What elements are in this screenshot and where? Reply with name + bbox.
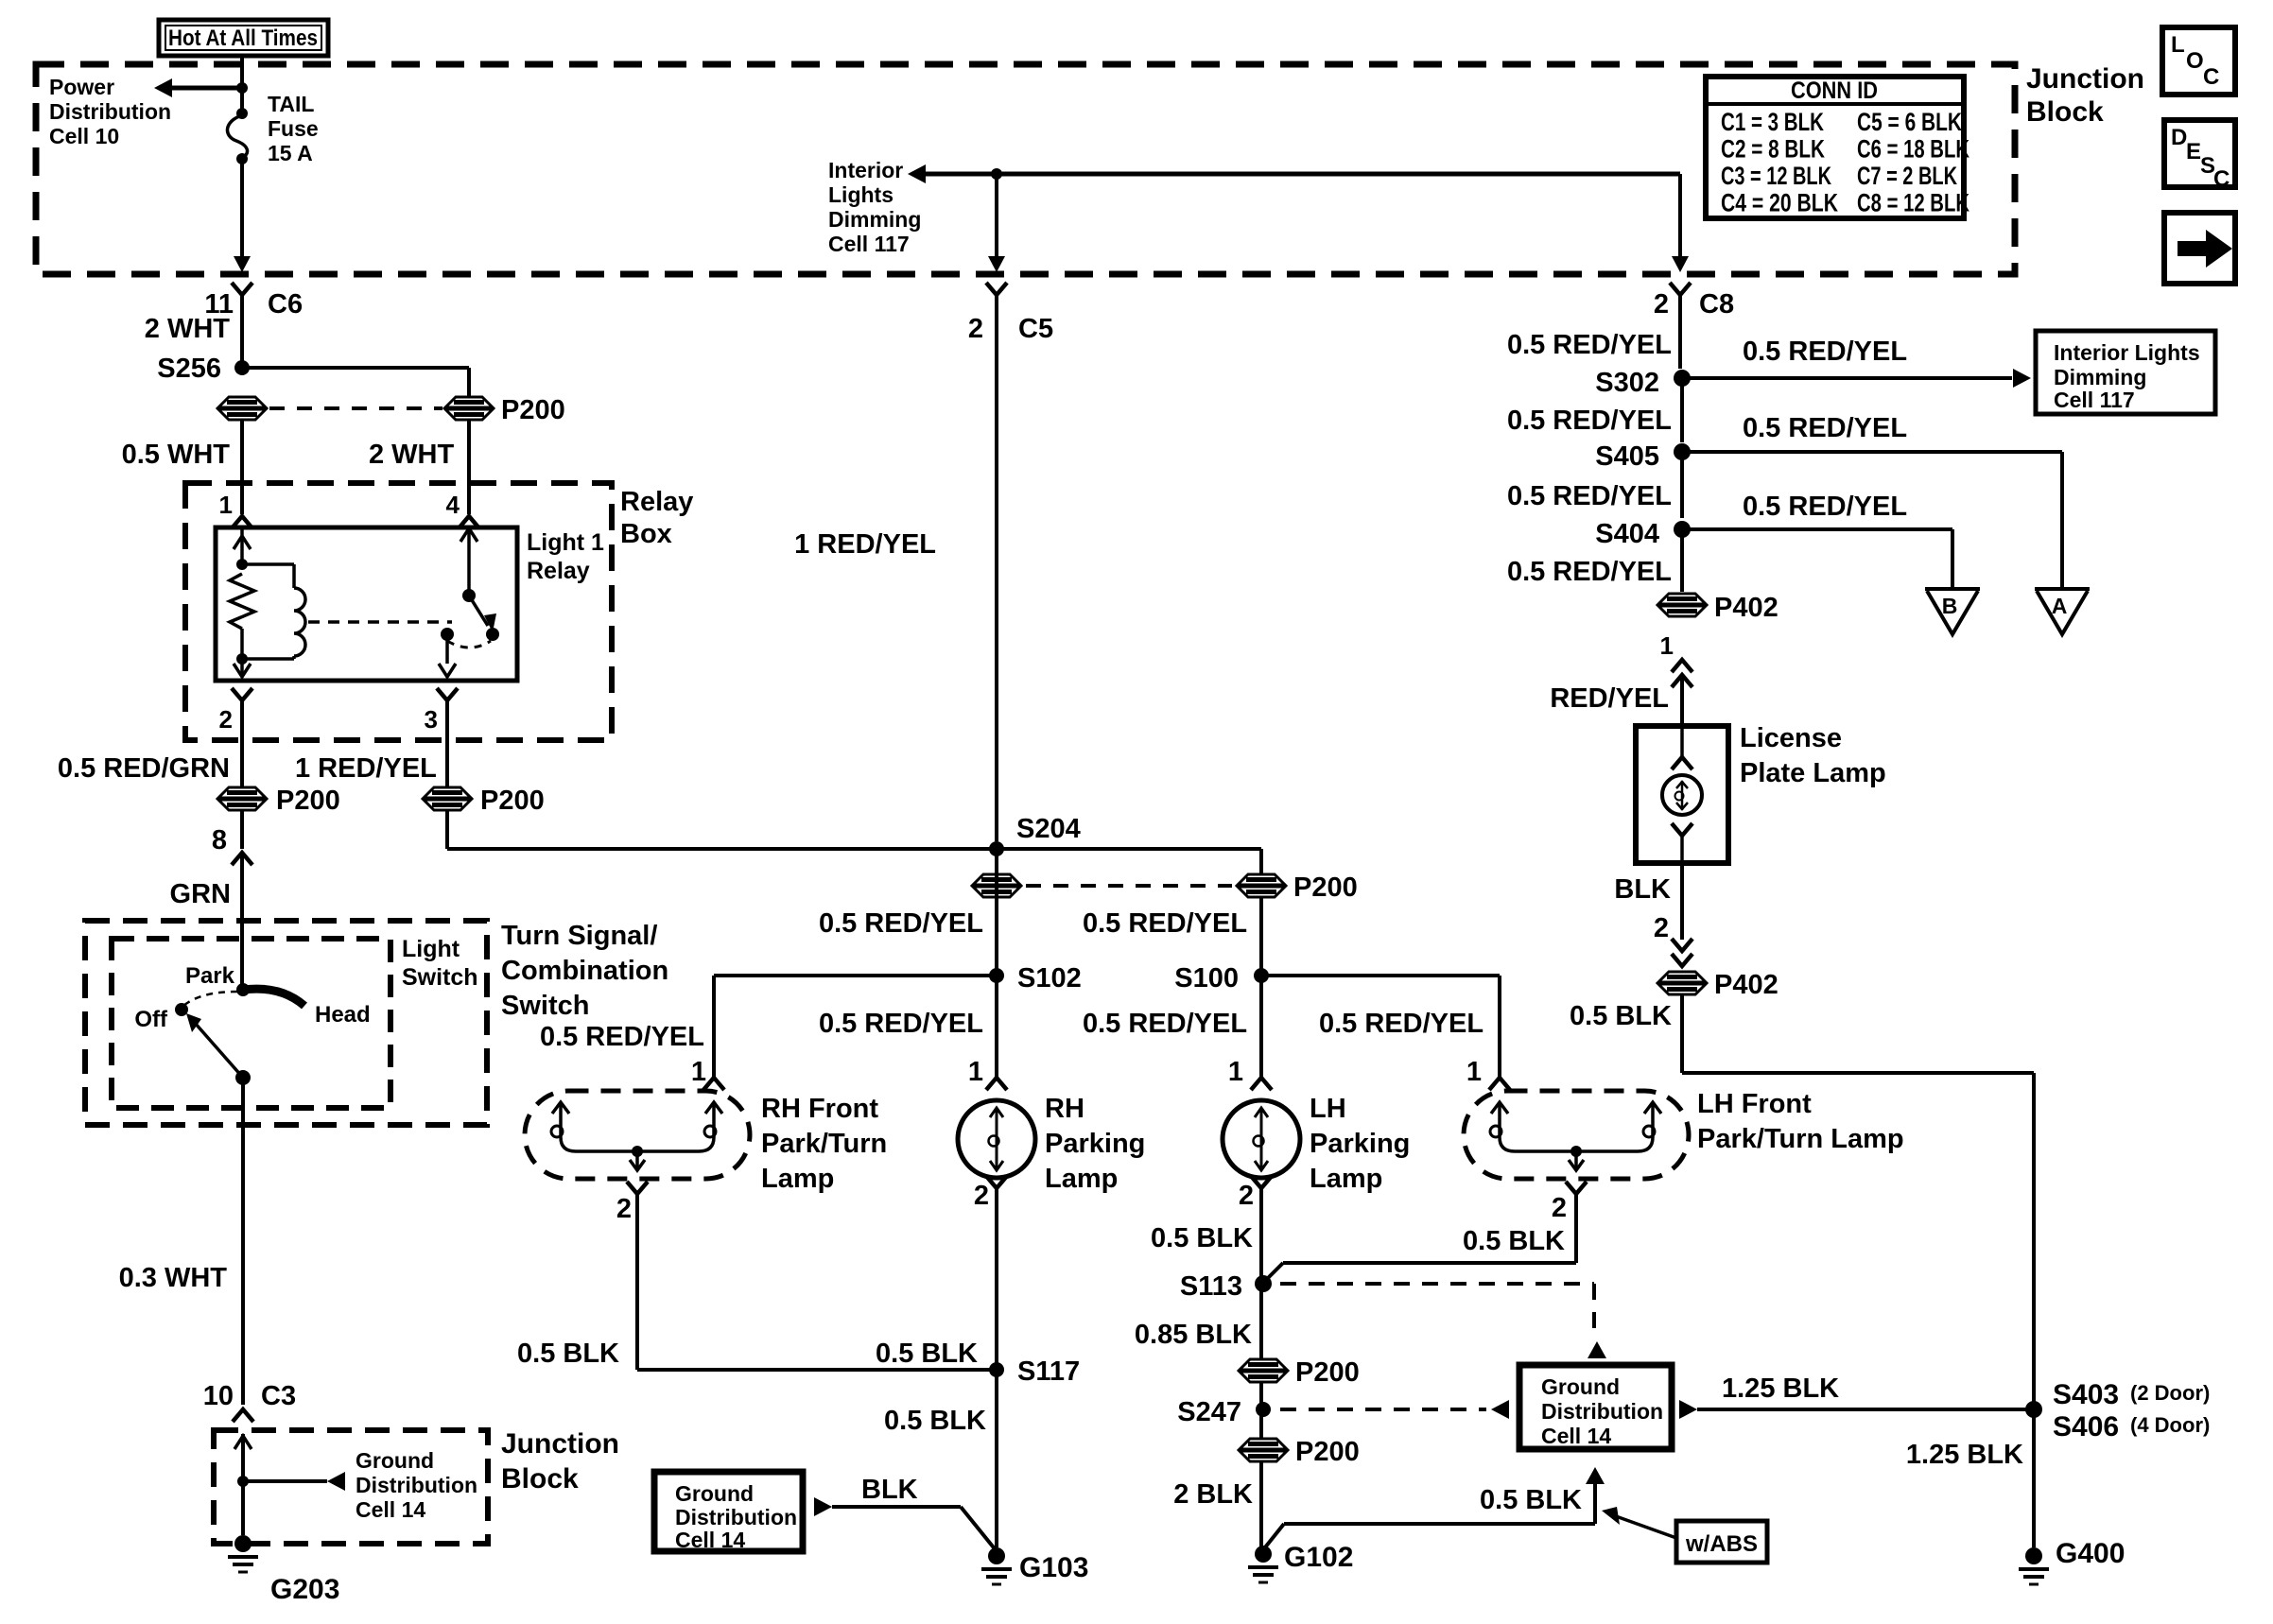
svg-text:C8 = 12 BLK: C8 = 12 BLK [1857, 189, 1969, 217]
svg-text:0.5 RED/YEL: 0.5 RED/YEL [1319, 1009, 1484, 1039]
svg-text:L: L [2171, 32, 2185, 58]
svg-text:2: 2 [1654, 913, 1669, 943]
svg-text:C7 = 2 BLK: C7 = 2 BLK [1857, 162, 1957, 190]
svg-text:0.5 RED/YEL: 0.5 RED/YEL [1507, 557, 1672, 587]
svg-text:Relay: Relay [527, 558, 590, 584]
svg-text:License: License [1740, 723, 1842, 753]
svg-text:0.5 RED/YEL: 0.5 RED/YEL [1507, 406, 1672, 436]
svg-text:0.5 RED/YEL: 0.5 RED/YEL [819, 908, 983, 939]
svg-text:TAIL: TAIL [268, 92, 314, 116]
svg-text:D: D [2171, 125, 2187, 150]
svg-text:Block: Block [2026, 96, 2104, 128]
svg-text:GRN: GRN [170, 879, 231, 909]
svg-text:1: 1 [1660, 631, 1674, 660]
svg-text:Switch: Switch [501, 991, 589, 1021]
svg-text:Light: Light [402, 936, 460, 962]
svg-text:0.5 BLK: 0.5 BLK [1151, 1223, 1253, 1253]
svg-text:Switch: Switch [402, 964, 478, 991]
svg-text:Cell 117: Cell 117 [828, 232, 910, 256]
svg-text:2 WHT: 2 WHT [369, 440, 455, 470]
svg-text:P200: P200 [480, 786, 545, 816]
svg-text:2: 2 [968, 314, 983, 344]
svg-text:Parking: Parking [1310, 1129, 1410, 1159]
svg-text:Light 1: Light 1 [527, 529, 604, 556]
svg-text:C: C [2203, 64, 2219, 90]
svg-text:4: 4 [446, 491, 460, 519]
svg-text:0.5 RED/YEL: 0.5 RED/YEL [1743, 492, 1907, 522]
svg-text:C5 = 6 BLK: C5 = 6 BLK [1857, 108, 1962, 136]
svg-text:0.5 RED/YEL: 0.5 RED/YEL [1083, 908, 1247, 939]
svg-text:O: O [2186, 48, 2204, 74]
svg-text:E: E [2186, 139, 2201, 164]
svg-text:0.5 RED/YEL: 0.5 RED/YEL [540, 1022, 704, 1052]
svg-text:3: 3 [425, 705, 438, 734]
svg-text:S404: S404 [1595, 519, 1659, 549]
svg-text:Dimming: Dimming [2054, 365, 2146, 389]
svg-text:0.5 RED/YEL: 0.5 RED/YEL [1743, 337, 1907, 367]
svg-text:B: B [1942, 594, 1958, 618]
svg-text:Combination: Combination [501, 956, 668, 986]
svg-text:P200: P200 [501, 395, 565, 425]
svg-text:P402: P402 [1714, 593, 1778, 623]
svg-text:(2 Door): (2 Door) [2130, 1381, 2210, 1405]
svg-text:BLK: BLK [861, 1475, 918, 1505]
svg-text:Relay: Relay [620, 487, 693, 517]
svg-text:C3 = 12 BLK: C3 = 12 BLK [1721, 162, 1831, 190]
svg-text:0.5 RED/YEL: 0.5 RED/YEL [1507, 330, 1672, 360]
svg-text:0.5 RED/YEL: 0.5 RED/YEL [819, 1009, 983, 1039]
svg-text:C6: C6 [268, 289, 303, 320]
svg-text:Lamp: Lamp [1310, 1164, 1382, 1194]
svg-text:15 A: 15 A [268, 141, 313, 165]
svg-text:1: 1 [1228, 1057, 1243, 1087]
svg-text:P200: P200 [1295, 1437, 1360, 1467]
svg-text:Ground: Ground [1541, 1374, 1620, 1399]
svg-text:2 BLK: 2 BLK [1173, 1479, 1253, 1510]
svg-text:1 RED/YEL: 1 RED/YEL [295, 753, 437, 784]
svg-text:2: 2 [1654, 289, 1669, 320]
svg-text:Distribution: Distribution [49, 99, 171, 124]
svg-text:Plate Lamp: Plate Lamp [1740, 758, 1886, 788]
svg-text:2: 2 [1239, 1181, 1254, 1211]
svg-text:0.5 BLK: 0.5 BLK [1480, 1485, 1582, 1515]
svg-text:C4 = 20 BLK: C4 = 20 BLK [1721, 189, 1838, 217]
svg-text:S113: S113 [1180, 1271, 1242, 1302]
svg-text:Off: Off [134, 1007, 168, 1032]
svg-text:Cell 14: Cell 14 [1541, 1424, 1611, 1448]
svg-text:Park: Park [185, 963, 235, 989]
svg-text:RH Front: RH Front [761, 1094, 878, 1124]
svg-text:S204: S204 [1016, 814, 1081, 844]
svg-text:C2 = 8 BLK: C2 = 8 BLK [1721, 135, 1825, 164]
svg-text:S302: S302 [1595, 368, 1659, 398]
svg-text:0.5 BLK: 0.5 BLK [884, 1406, 986, 1436]
svg-text:G102: G102 [1284, 1542, 1353, 1573]
svg-text:A: A [2052, 594, 2068, 618]
svg-text:C1 = 3 BLK: C1 = 3 BLK [1721, 108, 1824, 136]
svg-text:2 WHT: 2 WHT [145, 314, 231, 344]
svg-text:w/ABS: w/ABS [1685, 1531, 1758, 1557]
svg-text:Cell 14: Cell 14 [675, 1528, 745, 1552]
svg-text:LH Front: LH Front [1697, 1089, 1812, 1119]
svg-text:S403: S403 [2053, 1379, 2119, 1410]
svg-text:P200: P200 [1295, 1357, 1360, 1388]
svg-text:0.5 WHT: 0.5 WHT [122, 440, 231, 470]
svg-text:S100: S100 [1174, 963, 1239, 993]
svg-text:P200: P200 [1293, 872, 1358, 903]
svg-text:0.5 BLK: 0.5 BLK [876, 1339, 978, 1369]
svg-text:S406: S406 [2053, 1411, 2119, 1443]
svg-text:BLK: BLK [1614, 874, 1671, 905]
svg-text:C6 = 18 BLK: C6 = 18 BLK [1857, 135, 1969, 164]
svg-text:0.5 BLK: 0.5 BLK [1463, 1226, 1565, 1256]
svg-text:0.5 RED/YEL: 0.5 RED/YEL [1083, 1009, 1247, 1039]
svg-text:Lamp: Lamp [1045, 1164, 1118, 1194]
svg-text:0.5 RED/YEL: 0.5 RED/YEL [1743, 413, 1907, 443]
svg-text:1: 1 [219, 491, 233, 519]
svg-text:S256: S256 [157, 354, 221, 384]
svg-text:0.5 BLK: 0.5 BLK [517, 1339, 619, 1369]
svg-text:G103: G103 [1019, 1552, 1088, 1583]
svg-text:Park/Turn Lamp: Park/Turn Lamp [1697, 1124, 1904, 1154]
svg-text:8: 8 [212, 825, 227, 855]
svg-text:0.5 BLK: 0.5 BLK [1570, 1001, 1672, 1031]
svg-text:Turn Signal/: Turn Signal/ [501, 921, 657, 951]
svg-text:C: C [2213, 166, 2230, 192]
svg-text:Cell 10: Cell 10 [49, 124, 119, 148]
svg-text:S117: S117 [1017, 1356, 1080, 1387]
svg-text:(4 Door): (4 Door) [2130, 1413, 2210, 1437]
svg-text:Block: Block [501, 1463, 579, 1494]
svg-text:Lights: Lights [828, 182, 894, 207]
svg-text:Cell 14: Cell 14 [356, 1497, 425, 1522]
svg-text:Hot At All Times: Hot At All Times [168, 26, 318, 51]
svg-text:1 RED/YEL: 1 RED/YEL [794, 529, 936, 560]
svg-text:Head: Head [315, 1002, 371, 1028]
svg-text:G203: G203 [270, 1574, 339, 1605]
svg-text:0.85 BLK: 0.85 BLK [1135, 1320, 1252, 1350]
svg-text:0.5 RED/GRN: 0.5 RED/GRN [58, 753, 230, 784]
svg-text:C8: C8 [1699, 289, 1734, 320]
svg-text:LH: LH [1310, 1094, 1346, 1124]
svg-text:10: 10 [203, 1381, 234, 1411]
svg-text:P200: P200 [276, 786, 340, 816]
svg-text:Distribution: Distribution [675, 1505, 797, 1529]
svg-text:Power: Power [49, 75, 114, 99]
svg-text:CONN ID: CONN ID [1791, 78, 1878, 104]
svg-text:Distribution: Distribution [1541, 1399, 1663, 1424]
svg-text:RED/YEL: RED/YEL [1550, 683, 1669, 714]
svg-text:G400: G400 [2056, 1538, 2125, 1569]
svg-text:0.3 WHT: 0.3 WHT [119, 1263, 228, 1293]
svg-text:Junction: Junction [2026, 63, 2144, 95]
svg-text:1.25 BLK: 1.25 BLK [1906, 1440, 2023, 1470]
svg-text:1: 1 [1466, 1057, 1482, 1087]
svg-text:C3: C3 [261, 1381, 296, 1411]
svg-text:Ground: Ground [356, 1448, 434, 1473]
svg-text:C5: C5 [1018, 314, 1053, 344]
svg-text:P402: P402 [1714, 970, 1778, 1000]
svg-text:Interior: Interior [828, 158, 903, 182]
svg-text:2: 2 [974, 1181, 989, 1211]
svg-text:Lamp: Lamp [761, 1164, 834, 1194]
svg-text:S102: S102 [1017, 963, 1082, 993]
svg-text:2: 2 [219, 705, 233, 734]
svg-text:Ground: Ground [675, 1481, 754, 1506]
svg-text:1: 1 [691, 1057, 706, 1087]
svg-text:RH: RH [1045, 1094, 1084, 1124]
svg-text:Cell 117: Cell 117 [2054, 388, 2135, 412]
svg-text:2: 2 [1552, 1193, 1567, 1223]
svg-text:1: 1 [968, 1057, 983, 1087]
svg-text:2: 2 [616, 1194, 632, 1224]
svg-text:S405: S405 [1595, 441, 1659, 472]
svg-text:0.5 RED/YEL: 0.5 RED/YEL [1507, 481, 1672, 511]
svg-text:S247: S247 [1177, 1397, 1241, 1427]
svg-text:Interior Lights: Interior Lights [2054, 340, 2200, 365]
svg-text:Dimming: Dimming [828, 207, 921, 232]
svg-text:Parking: Parking [1045, 1129, 1145, 1159]
svg-text:Box: Box [620, 519, 672, 549]
svg-text:1.25 BLK: 1.25 BLK [1722, 1373, 1839, 1404]
svg-text:Distribution: Distribution [356, 1473, 477, 1497]
svg-text:Park/Turn: Park/Turn [761, 1129, 887, 1159]
svg-text:Fuse: Fuse [268, 116, 319, 141]
svg-text:Junction: Junction [501, 1428, 619, 1460]
